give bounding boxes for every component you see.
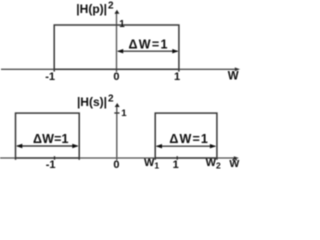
svg-text:1: 1 [174,71,180,83]
svg-text:-1: -1 [46,159,56,171]
svg-text:-1: -1 [45,71,55,83]
svg-text:ΔW=1: ΔW=1 [33,132,69,146]
svg-text:2: 2 [108,0,114,11]
svg-text:1: 1 [119,19,125,30]
svg-text:1: 1 [173,159,179,171]
svg-text:|H(p)|: |H(p)| [76,2,107,16]
svg-text:1: 1 [121,108,127,119]
svg-text:W1: W1 [144,157,159,171]
svg-text:W: W [228,71,239,83]
svg-text:ΔW=1: ΔW=1 [169,132,208,146]
svg-text:W: W [229,158,239,170]
svg-text:W2: W2 [206,157,221,171]
svg-text:ΔW=1: ΔW=1 [129,38,168,52]
svg-text:|H(s)|: |H(s)| [77,95,107,109]
svg-text:0: 0 [113,159,119,171]
svg-text:2: 2 [108,93,114,104]
svg-text:0: 0 [113,71,119,83]
